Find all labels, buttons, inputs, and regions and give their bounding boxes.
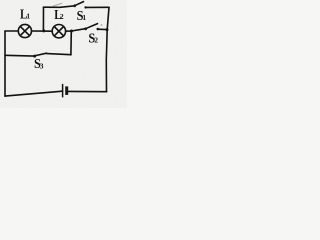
label S2 [88, 30, 95, 46]
wire top-branch vertical [42, 7, 44, 30]
svg-text:1: 1 [26, 12, 30, 21]
switch S1 [73, 2, 109, 9]
svg-text:2: 2 [60, 12, 64, 21]
lamp L1 [18, 24, 31, 37]
node junction C dot (S2 wire meets right vertical) [106, 28, 109, 31]
wire right vertical [106, 7, 109, 91]
faint scan speck [101, 24, 103, 26]
switch S2 [84, 24, 107, 31]
label L2 [54, 7, 61, 23]
stray faint mark above top wire [53, 3, 62, 6]
svg-text:1: 1 [82, 13, 86, 22]
switch S3 [33, 53, 71, 57]
wire S3-branch stub from left vertical [5, 54, 34, 57]
wire lamp-row left segment [5, 30, 18, 32]
wire junction B to switch S2 [72, 29, 85, 31]
label S3 [34, 55, 41, 71]
node junction B dot [70, 30, 73, 33]
wire L1 to L2 [32, 30, 53, 32]
battery cell [61, 85, 68, 97]
label L1 [20, 6, 27, 22]
wire bottom right segment [68, 90, 106, 92]
label S1 [77, 7, 84, 23]
wire top branch horizontal (left part) [44, 6, 74, 7]
wire S3-branch vertical up to junction B [70, 31, 72, 55]
svg-text:3: 3 [40, 61, 44, 70]
wire bottom left segment [5, 91, 61, 96]
lamp L2 [52, 25, 65, 38]
wire L2 to junction B [66, 30, 72, 32]
node junction A dot [42, 29, 45, 32]
wire left vertical [4, 31, 6, 96]
svg-text:2: 2 [94, 36, 98, 45]
